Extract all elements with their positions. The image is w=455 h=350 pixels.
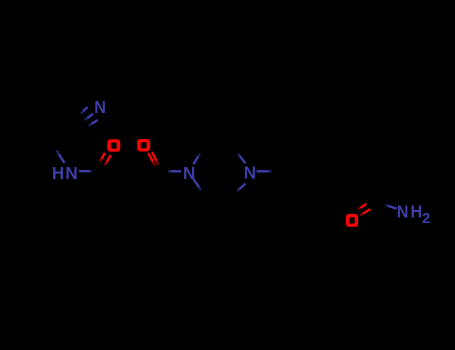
wire fade cap on C(=O)-N3 bond <box>168 170 171 173</box>
wire fade cap on N3 lower stub <box>199 187 201 190</box>
wire fade cap on O1 double bond line 2 <box>105 162 107 165</box>
wire fade cap on C(=O)-NH2 stub <box>386 204 389 208</box>
wire fade cap on N4 upper stub <box>238 154 240 156</box>
nitrile triple bond C#N line 3 <box>89 120 98 126</box>
wire fade cap on O2 double bond line 1 <box>153 162 155 166</box>
svg-text:H: H <box>410 202 422 222</box>
nitrile triple bond C#N line 2 <box>85 114 93 120</box>
wire C(=O)-N3 bond to piperazine <box>168 170 181 172</box>
node amide O3 label <box>346 214 358 227</box>
wire fade cap on triple bond line 2 <box>85 118 88 120</box>
carbonyl C=O double bond O1 line 2 <box>105 155 111 165</box>
wire fade cap on C-NH stub <box>57 151 60 155</box>
wire C-N bond into amide NH <box>57 151 65 164</box>
wire HN-C(=O) bond <box>79 170 92 172</box>
wire fade cap on N3 upper stub <box>198 154 200 157</box>
wire C(=O)-NH2 bond <box>386 205 397 209</box>
carbonyl C=O double bond O2 line 2 <box>152 152 158 164</box>
carbonyl C=O double bond O2 line 1 <box>148 153 155 165</box>
wire fade cap on N4 lower stub <box>237 189 239 191</box>
carbonyl C=O double bond O3 line 1 <box>359 204 367 209</box>
svg-text:2: 2 <box>422 210 430 227</box>
wire fade cap on O3 double bond line 1 <box>359 208 361 209</box>
svg-text:N: N <box>94 97 106 117</box>
svg-text:N: N <box>65 162 77 183</box>
wire N4-phenyl bond <box>257 170 272 172</box>
wire fade cap on O3 double bond line 2 <box>360 214 363 216</box>
wire fade cap on triple bond line 3 <box>89 124 92 126</box>
wire piperazine N4 upper-left ring bond <box>238 154 245 163</box>
wire piperazine N4 lower-left ring bond <box>237 184 245 192</box>
node carbonyl O1 label <box>107 139 120 152</box>
wire fade cap on N4-phenyl bond <box>268 170 271 173</box>
wire piperazine N3 lower-right ring bond <box>193 179 201 190</box>
nitrile triple bond C#N line 1 <box>81 107 88 114</box>
svg-text:N: N <box>397 202 409 222</box>
wire fade cap on triple bond line 1 <box>81 111 83 113</box>
wire fade cap on HN-C(=O) bond <box>90 170 93 173</box>
carbonyl C=O double bond O3 line 2 <box>360 209 370 215</box>
wire piperazine N3 upper-right ring bond <box>193 154 200 164</box>
svg-text:N: N <box>244 162 256 183</box>
node carbonyl O2 label <box>137 139 150 152</box>
wire fade cap on O1 double bond line 1 <box>100 159 102 162</box>
carbonyl C=O double bond O1 line 1 <box>100 153 105 162</box>
svg-text:N: N <box>183 162 195 183</box>
wire fade cap on O2 double bond line 2 <box>156 161 158 165</box>
svg-text:H: H <box>52 162 64 183</box>
